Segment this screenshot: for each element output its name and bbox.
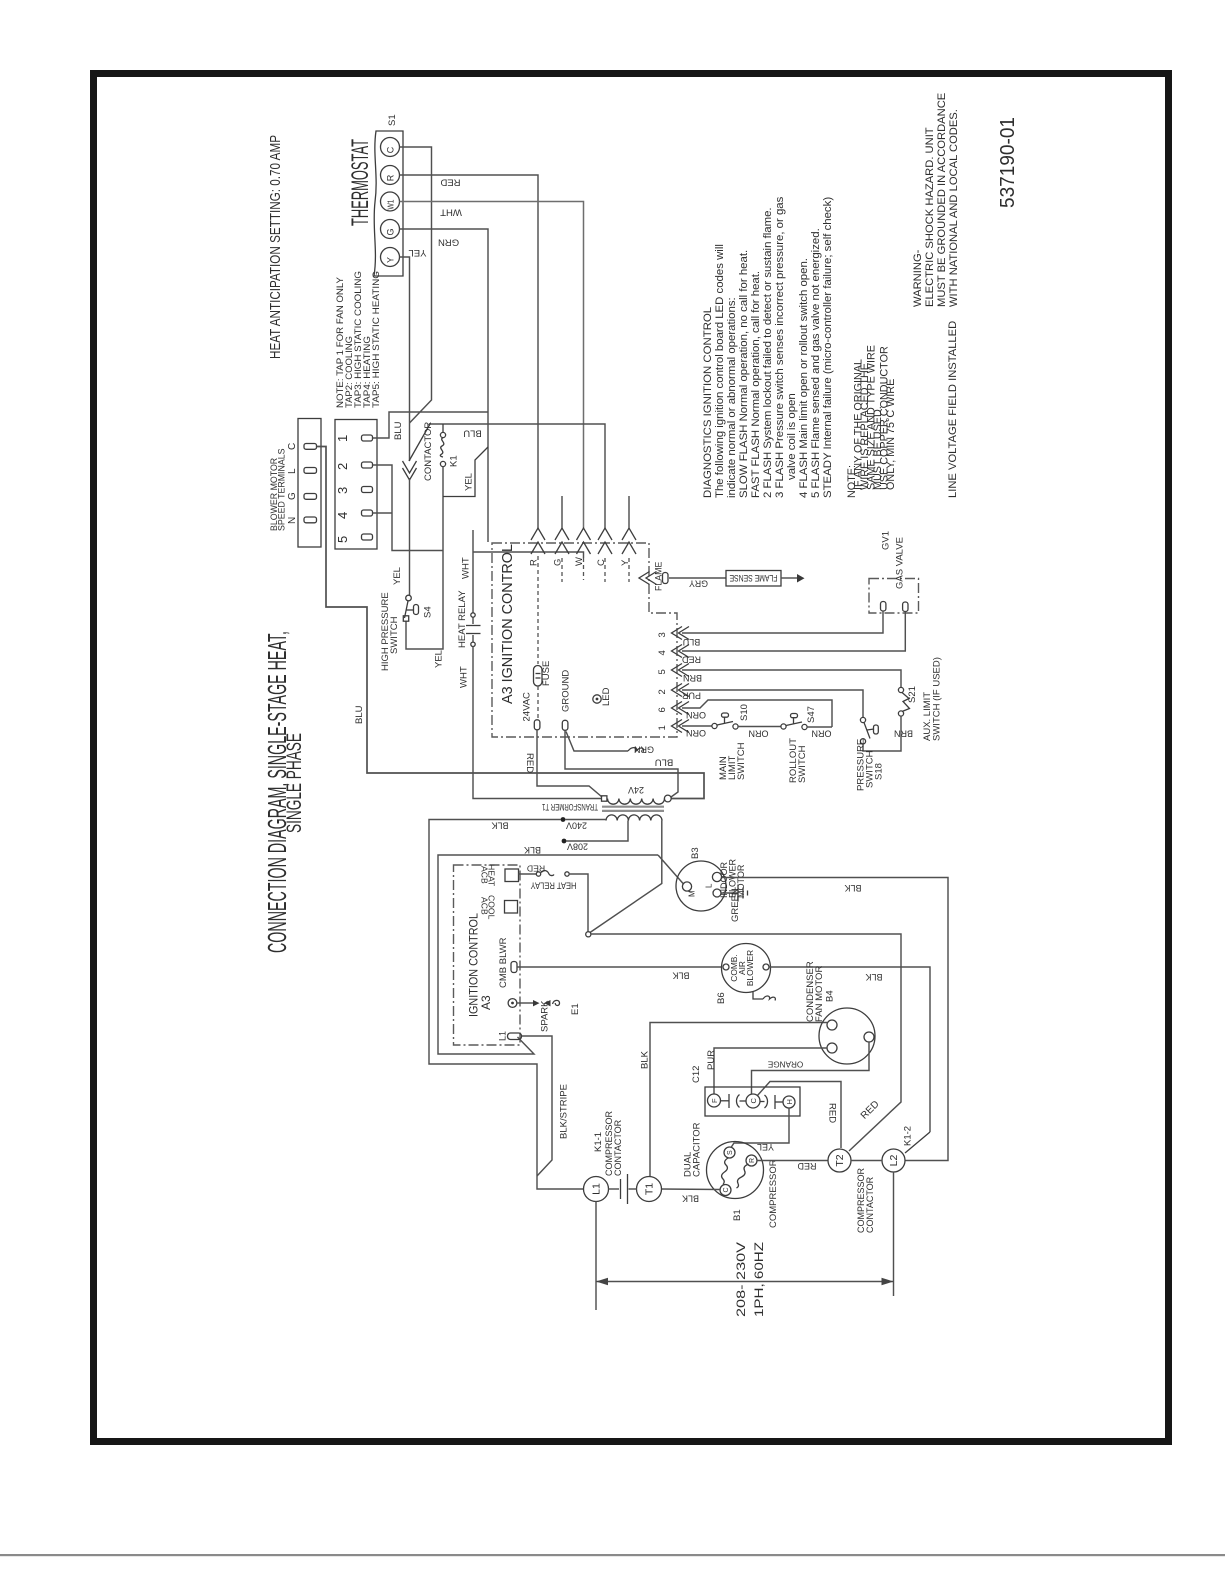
- terminal 1: [672, 720, 683, 733]
- svg-text:W1: W1: [387, 199, 396, 209]
- svg-text:YEL: YEL: [434, 650, 445, 668]
- tap pills: [362, 435, 373, 441]
- svg-text:L2: L2: [888, 1155, 900, 1167]
- svg-text:E1: E1: [570, 1003, 581, 1015]
- pin C pill: [304, 444, 317, 450]
- pressure switch S18: [860, 717, 865, 722]
- condenser fan motor B4: [819, 1008, 875, 1064]
- svg-text:CMB BLWR: CMB BLWR: [498, 937, 509, 988]
- flame sense box: [726, 571, 781, 587]
- svg-text:L: L: [705, 883, 714, 888]
- svg-text:RED: RED: [682, 655, 702, 665]
- internal dashed R to fuse: [537, 556, 539, 664]
- svg-text:BLU: BLU: [683, 637, 701, 647]
- svg-text:SWITCH: SWITCH: [389, 616, 400, 654]
- wire primary right to junction: [590, 821, 662, 933]
- wire BLK T1 to compressor C: [662, 1188, 721, 1191]
- svg-text:6: 6: [657, 707, 668, 712]
- svg-text:MUST BE GROUNDED IN ACCORDANCE: MUST BE GROUNDED IN ACCORDANCE: [936, 93, 948, 307]
- wire tap2/tap4 to contactor coil: [373, 465, 444, 551]
- svg-text:valve coil is open: valve coil is open: [786, 393, 798, 480]
- stub G: [561, 496, 563, 528]
- svg-text:BLK/STRIPE: BLK/STRIPE: [559, 1084, 570, 1139]
- wire flame sense: [669, 577, 726, 579]
- svg-text:C12: C12: [691, 1066, 702, 1083]
- svg-text:C: C: [287, 443, 298, 450]
- svg-text:BLK: BLK: [491, 820, 508, 830]
- wire B6 to K1-2: [769, 967, 930, 1132]
- svg-text:S1: S1: [387, 114, 398, 126]
- svg-text:4: 4: [335, 512, 350, 519]
- svg-text:WHT: WHT: [440, 207, 462, 218]
- svg-text:HEAT RELAY: HEAT RELAY: [457, 590, 468, 648]
- svg-text:C: C: [749, 1098, 758, 1104]
- ignition control board outline A3: [492, 543, 677, 737]
- svg-text:ORANGE: ORANGE: [767, 1060, 803, 1069]
- svg-text:4 FLASH Main limit open or ro: 4 FLASH Main limit open or rollout switc…: [798, 258, 810, 498]
- svg-text:DIAGNOSTICS IGNITION CONTROL: DIAGNOSTICS IGNITION CONTROL: [702, 307, 714, 498]
- wire T1 to condenser fan motor: [650, 1023, 827, 1178]
- svg-text:SWITCH: SWITCH: [797, 745, 808, 783]
- svg-text:WHT: WHT: [459, 666, 470, 688]
- spark electrode terminal: [508, 999, 517, 1008]
- svg-text:FAN MOTOR: FAN MOTOR: [814, 966, 825, 1022]
- svg-text:5 FLASH Flame sensed and gas: 5 FLASH Flame sensed and gas valve not e…: [810, 228, 822, 498]
- wire 2 PUR to pressure switch: [682, 690, 863, 718]
- wire B3 L to compressor contactor L2 (BLK): [722, 878, 949, 1161]
- svg-text:S47: S47: [806, 706, 817, 723]
- 208V tap: [562, 839, 567, 844]
- svg-text:24VAC: 24VAC: [522, 692, 533, 722]
- dimension line: [596, 1281, 894, 1283]
- svg-text:5: 5: [335, 536, 350, 543]
- terminal 3: [672, 627, 683, 640]
- high pressure switch S4: [406, 595, 412, 601]
- svg-text:T2: T2: [834, 1154, 846, 1166]
- wire T2 to L2: [851, 1160, 882, 1162]
- svg-text:K1: K1: [449, 455, 460, 467]
- gas valve GV1 box: [869, 579, 919, 614]
- gas valve terminal pills: [881, 602, 886, 612]
- contactor terminal L1: [584, 1177, 609, 1202]
- wire coil bottom to S4: [406, 467, 443, 650]
- pin L pill: [304, 468, 317, 474]
- contactor terminal T1: [637, 1177, 662, 1202]
- wire BLK to blower M: [438, 855, 658, 1054]
- wire W1 to board: [400, 202, 584, 529]
- svg-text:BLK: BLK: [672, 970, 689, 980]
- secondary 24V winding: [602, 796, 607, 801]
- indoor blower motor B3: [676, 861, 726, 911]
- terminal G: [381, 220, 400, 239]
- connector N G L C box: [298, 419, 321, 548]
- wire 24VAC to secondary left (RED): [537, 730, 602, 797]
- wire 6 ORN to rollout: [682, 700, 832, 727]
- svg-text:BLU: BLU: [393, 421, 404, 440]
- svg-text:COMPRESSOR: COMPRESSOR: [768, 1159, 779, 1228]
- svg-text:24V: 24V: [628, 785, 644, 795]
- main limit switch S10: [712, 723, 717, 728]
- svg-text:FLAME SENSE: FLAME SENSE: [730, 573, 778, 583]
- svg-text:S21: S21: [907, 686, 918, 703]
- terminal C chevrons: [598, 528, 612, 540]
- terminal 5: [672, 664, 683, 677]
- fuse: [534, 666, 543, 687]
- aux limit switch S21: [898, 687, 903, 692]
- svg-text:WARNING-: WARNING-: [912, 249, 924, 307]
- svg-text:4: 4: [657, 650, 668, 655]
- wire ground terminal green chassis: [566, 732, 628, 752]
- wire C to node: [400, 147, 432, 423]
- contactor blade: [409, 424, 430, 461]
- svg-text:BLK: BLK: [640, 1050, 651, 1069]
- svg-text:3: 3: [335, 487, 350, 494]
- svg-text:FAST FLASH Normal operation,: FAST FLASH Normal operation, call for he…: [750, 271, 762, 498]
- node chevrons on Y/C wire: [403, 461, 417, 473]
- svg-text:RED: RED: [440, 177, 460, 188]
- svg-text:ORN: ORN: [812, 729, 832, 739]
- primary winding: [606, 815, 662, 821]
- svg-text:S18: S18: [874, 763, 885, 780]
- svg-text:3 FLASH Pressure switch sense: 3 FLASH Pressure switch senses incorrect…: [774, 196, 786, 498]
- wire R to board: [400, 175, 539, 528]
- stub Y: [628, 496, 630, 528]
- ACB HEAT terminal: [505, 869, 519, 882]
- svg-text:CONTACTOR: CONTACTOR: [613, 1119, 623, 1176]
- wire CMB BLWR to comb air blower: [517, 966, 722, 968]
- svg-text:GROUND: GROUND: [561, 670, 572, 712]
- svg-text:T1: T1: [644, 1183, 656, 1195]
- comb air blower B6: [722, 944, 771, 993]
- junction node: [586, 932, 591, 937]
- svg-text:S10: S10: [739, 704, 750, 721]
- green ground of B3: [721, 892, 738, 894]
- svg-text:208V: 208V: [567, 841, 588, 851]
- contactor terminal L2: [882, 1149, 905, 1172]
- heat relay contact (RED): [519, 873, 537, 875]
- wire ORANGE B4 to cap C: [752, 1042, 870, 1094]
- wire C pill to transformer (BLU): [317, 447, 705, 799]
- svg-text:The following ignition control: The following ignition control board LED…: [714, 244, 726, 498]
- wire tap1 to G node: [373, 412, 488, 438]
- svg-text:HEAT: HEAT: [487, 864, 497, 887]
- terminal R: [381, 166, 400, 185]
- svg-text:2 FLASH System lockout fail: 2 FLASH System lockout failed to detect …: [762, 207, 774, 498]
- windings: [722, 1158, 728, 1185]
- K1-2 contact blade: [905, 1132, 930, 1153]
- svg-text:PUR: PUR: [682, 691, 702, 701]
- wire 4 RED to gas valve: [682, 612, 905, 652]
- svg-text:indicate normal or abnormal op: indicate normal or abnormal operations:: [726, 297, 738, 498]
- wire 1 ORN to main limit: [682, 725, 712, 727]
- terminal W chevrons: [577, 528, 591, 540]
- terminal FLAME: [639, 572, 650, 585]
- heat relay contact (WHT string): [472, 530, 474, 613]
- svg-text:SPARK: SPARK: [540, 1000, 551, 1032]
- svg-text:H: H: [785, 1099, 794, 1104]
- svg-text:RED: RED: [827, 1103, 838, 1123]
- wire L1 board to contactor L1 (BLK/STRIPE): [522, 1036, 552, 1176]
- terminal 24VAC: [534, 720, 540, 730]
- svg-text:ONLY, MIN 75°C WIRE: ONLY, MIN 75°C WIRE: [885, 379, 897, 490]
- terminal GROUND: [562, 720, 568, 730]
- pin N pill: [304, 517, 317, 523]
- wire 240V to contactor L1 (BLK): [429, 820, 584, 1190]
- svg-text:K1-2: K1-2: [903, 1126, 914, 1146]
- svg-text:G: G: [287, 492, 298, 500]
- svg-text:TAP5: HIGH STATIC HEATING: TAP5: HIGH STATIC HEATING: [371, 271, 382, 408]
- wire tap4 stub: [373, 512, 393, 514]
- flame sense arrow: [781, 577, 797, 579]
- K1-1 contact bars: [609, 1188, 620, 1190]
- 240V tap: [561, 817, 566, 822]
- svg-text:GV1: GV1: [881, 531, 892, 550]
- terminal W1: [381, 192, 400, 211]
- svg-text:LED: LED: [601, 687, 612, 706]
- dashed fuse to 24VAC: [537, 686, 539, 719]
- core: [602, 806, 664, 808]
- terminal L1 board: [508, 1033, 522, 1040]
- svg-text:Y: Y: [386, 257, 396, 263]
- svg-text:YEL: YEL: [409, 247, 427, 258]
- svg-text:B4: B4: [825, 990, 836, 1002]
- svg-text:BLU: BLU: [655, 757, 674, 768]
- svg-text:ORN: ORN: [686, 728, 706, 738]
- thermostat S1 outline: [374, 131, 403, 276]
- svg-text:FUSE: FUSE: [541, 661, 552, 686]
- svg-text:208- 230V: 208- 230V: [734, 1242, 748, 1317]
- svg-text:BLOWER: BLOWER: [745, 950, 755, 986]
- svg-text:1PH, 60HZ: 1PH, 60HZ: [752, 1242, 766, 1317]
- svg-text:G: G: [386, 228, 396, 235]
- spark gap: [533, 1000, 540, 1006]
- svg-text:1: 1: [657, 725, 668, 730]
- svg-text:R: R: [749, 1158, 756, 1163]
- terminal R chevrons: [531, 528, 545, 540]
- svg-text:F: F: [710, 1098, 719, 1103]
- svg-text:ELECTRIC SHOCK HAZARD. UNIT: ELECTRIC SHOCK HAZARD. UNIT: [924, 127, 936, 307]
- svg-text:SWITCH: SWITCH: [736, 742, 747, 780]
- svg-text:K1-1: K1-1: [593, 1132, 604, 1152]
- ignition control board A3 (line voltage): [454, 865, 521, 1045]
- wire node to S4: [409, 478, 411, 595]
- border frame: [94, 74, 1169, 1442]
- svg-text:C: C: [386, 146, 396, 153]
- B6 chassis ground: [753, 992, 763, 1000]
- terminal Y: [381, 248, 400, 267]
- svg-text:ORN: ORN: [686, 710, 706, 720]
- svg-text:C: C: [723, 1187, 730, 1192]
- svg-text:240V: 240V: [566, 820, 587, 830]
- wire S47 to node: [807, 726, 832, 728]
- contactor terminal T2: [828, 1149, 851, 1172]
- internal dashed stubs: [561, 558, 563, 582]
- svg-text:537190-01: 537190-01: [997, 117, 1019, 208]
- coil return link: [443, 447, 488, 497]
- svg-text:5: 5: [657, 669, 668, 674]
- rollout switch S47: [781, 724, 786, 729]
- svg-text:S4: S4: [423, 606, 434, 618]
- svg-text:TRANSFORMER T1: TRANSFORMER T1: [542, 802, 598, 812]
- svg-text:B6: B6: [716, 992, 727, 1004]
- svg-text:RED: RED: [797, 1161, 817, 1171]
- wire contactor to C terminal: [430, 424, 605, 528]
- chassis squiggle GRN: [628, 748, 644, 752]
- svg-text:GREEN: GREEN: [730, 888, 741, 922]
- coil K1: [442, 424, 444, 433]
- wire G to board: [400, 229, 489, 542]
- terminal 2: [672, 684, 683, 697]
- terminal Y chevrons: [622, 528, 636, 540]
- svg-text:ORN: ORN: [749, 729, 769, 739]
- svg-text:R: R: [386, 174, 396, 181]
- svg-text:M: M: [688, 890, 697, 897]
- wire ground terminal to 24V secondary (BLU): [565, 731, 678, 798]
- wire RED cap C to T2: [757, 1082, 841, 1149]
- svg-text:N: N: [287, 517, 298, 524]
- svg-text:A3 IGNITION CONTROL: A3 IGNITION CONTROL: [499, 544, 516, 704]
- dimension leader L1: [595, 1202, 597, 1311]
- svg-text:2: 2: [657, 689, 668, 694]
- dual capacitor C12: [705, 1087, 800, 1116]
- wire S10 to S47: [738, 726, 781, 728]
- wire aux limit to pressure switch: [863, 716, 901, 751]
- svg-text:YEL: YEL: [464, 473, 475, 491]
- terminal G chevrons: [555, 528, 569, 540]
- svg-text:SLOW FLASH Normal operation,: SLOW FLASH Normal operation, no call for…: [738, 250, 750, 498]
- speed tap box: [335, 420, 377, 550]
- wire PUR cap F to B4: [714, 1048, 827, 1094]
- svg-text:PUR: PUR: [706, 1050, 717, 1070]
- svg-text:BLU: BLU: [354, 705, 365, 724]
- svg-text:BLK: BLK: [865, 972, 882, 982]
- svg-text:A3: A3: [479, 995, 493, 1010]
- svg-text:SWITCH (IF USED): SWITCH (IF USED): [932, 657, 943, 741]
- svg-text:YEL: YEL: [757, 1142, 774, 1152]
- wire heat relay to transformer common: [473, 647, 602, 799]
- svg-text:L: L: [287, 468, 298, 474]
- svg-text:BLK: BLK: [844, 883, 861, 893]
- wire 5 BRN to aux limit: [682, 670, 901, 688]
- svg-text:HEAT ANTICIPATION SETTING: 0.: HEAT ANTICIPATION SETTING: 0.70 AMP: [267, 135, 284, 359]
- ACB COOL terminal: [505, 901, 518, 914]
- svg-text:WITH NATIONAL AND LOCAL CODES.: WITH NATIONAL AND LOCAL CODES.: [948, 109, 960, 307]
- svg-text:B3: B3: [690, 847, 701, 859]
- svg-text:CONTACTOR: CONTACTOR: [423, 422, 434, 481]
- LED: [593, 695, 601, 703]
- wire junction to condenser run: [591, 934, 901, 1151]
- pin G pill: [304, 494, 317, 500]
- svg-text:GRN: GRN: [634, 745, 654, 755]
- wire heat relay to junction: [569, 874, 588, 932]
- CMB BLWR terminal: [511, 962, 517, 973]
- terminal 6: [672, 702, 683, 715]
- svg-text:RED: RED: [527, 863, 545, 873]
- wire 3 BLU to gas valve: [682, 611, 883, 633]
- svg-text:3: 3: [657, 632, 668, 637]
- svg-text:COOL: COOL: [487, 895, 497, 920]
- svg-text:BLU: BLU: [463, 428, 482, 439]
- svg-text:L1: L1: [498, 1031, 508, 1041]
- svg-text:RED: RED: [524, 753, 535, 773]
- svg-text:THERMOSTAT: THERMOSTAT: [347, 139, 374, 226]
- svg-text:S: S: [727, 1150, 734, 1155]
- svg-text:1: 1: [335, 435, 350, 442]
- svg-text:BLK: BLK: [682, 1193, 699, 1203]
- svg-text:YEL: YEL: [392, 567, 403, 585]
- svg-text:GAS VALVE: GAS VALVE: [895, 537, 906, 589]
- svg-text:SPEED TERMINALS: SPEED TERMINALS: [277, 448, 287, 531]
- svg-text:B1: B1: [732, 1209, 743, 1221]
- svg-text:SINGLE PHASE: SINGLE PHASE: [283, 733, 306, 833]
- svg-text:STEADY Internal failure (micr: STEADY Internal failure (micro-controlle…: [822, 197, 834, 498]
- compressor B1: [707, 1142, 764, 1199]
- terminal 4: [672, 645, 683, 658]
- capacitor symbols: [721, 1100, 730, 1102]
- svg-text:GRN: GRN: [438, 237, 459, 248]
- svg-text:L1: L1: [591, 1183, 603, 1195]
- svg-text:CONTACTOR: CONTACTOR: [865, 1176, 875, 1233]
- page footer rule: [0, 1554, 1225, 1556]
- svg-text:CAPACITOR: CAPACITOR: [692, 1122, 703, 1177]
- svg-text:HEAT RELAY: HEAT RELAY: [531, 880, 577, 890]
- wire RED compressor R to T2: [757, 1160, 828, 1162]
- svg-text:BLK: BLK: [524, 845, 541, 855]
- svg-text:BRN: BRN: [683, 673, 702, 683]
- svg-text:2: 2: [335, 463, 350, 470]
- svg-text:GRY: GRY: [689, 579, 708, 589]
- wire YEL cap H to compressor S: [731, 1108, 789, 1148]
- wire Y to node: [400, 257, 410, 461]
- dimension leader L2: [893, 1172, 895, 1296]
- svg-text:LINE VOLTAGE FIELD INSTALLED: LINE VOLTAGE FIELD INSTALLED: [947, 321, 959, 498]
- svg-text:BRN: BRN: [894, 729, 913, 739]
- terminal C: [381, 138, 400, 157]
- svg-text:WHT: WHT: [461, 557, 472, 579]
